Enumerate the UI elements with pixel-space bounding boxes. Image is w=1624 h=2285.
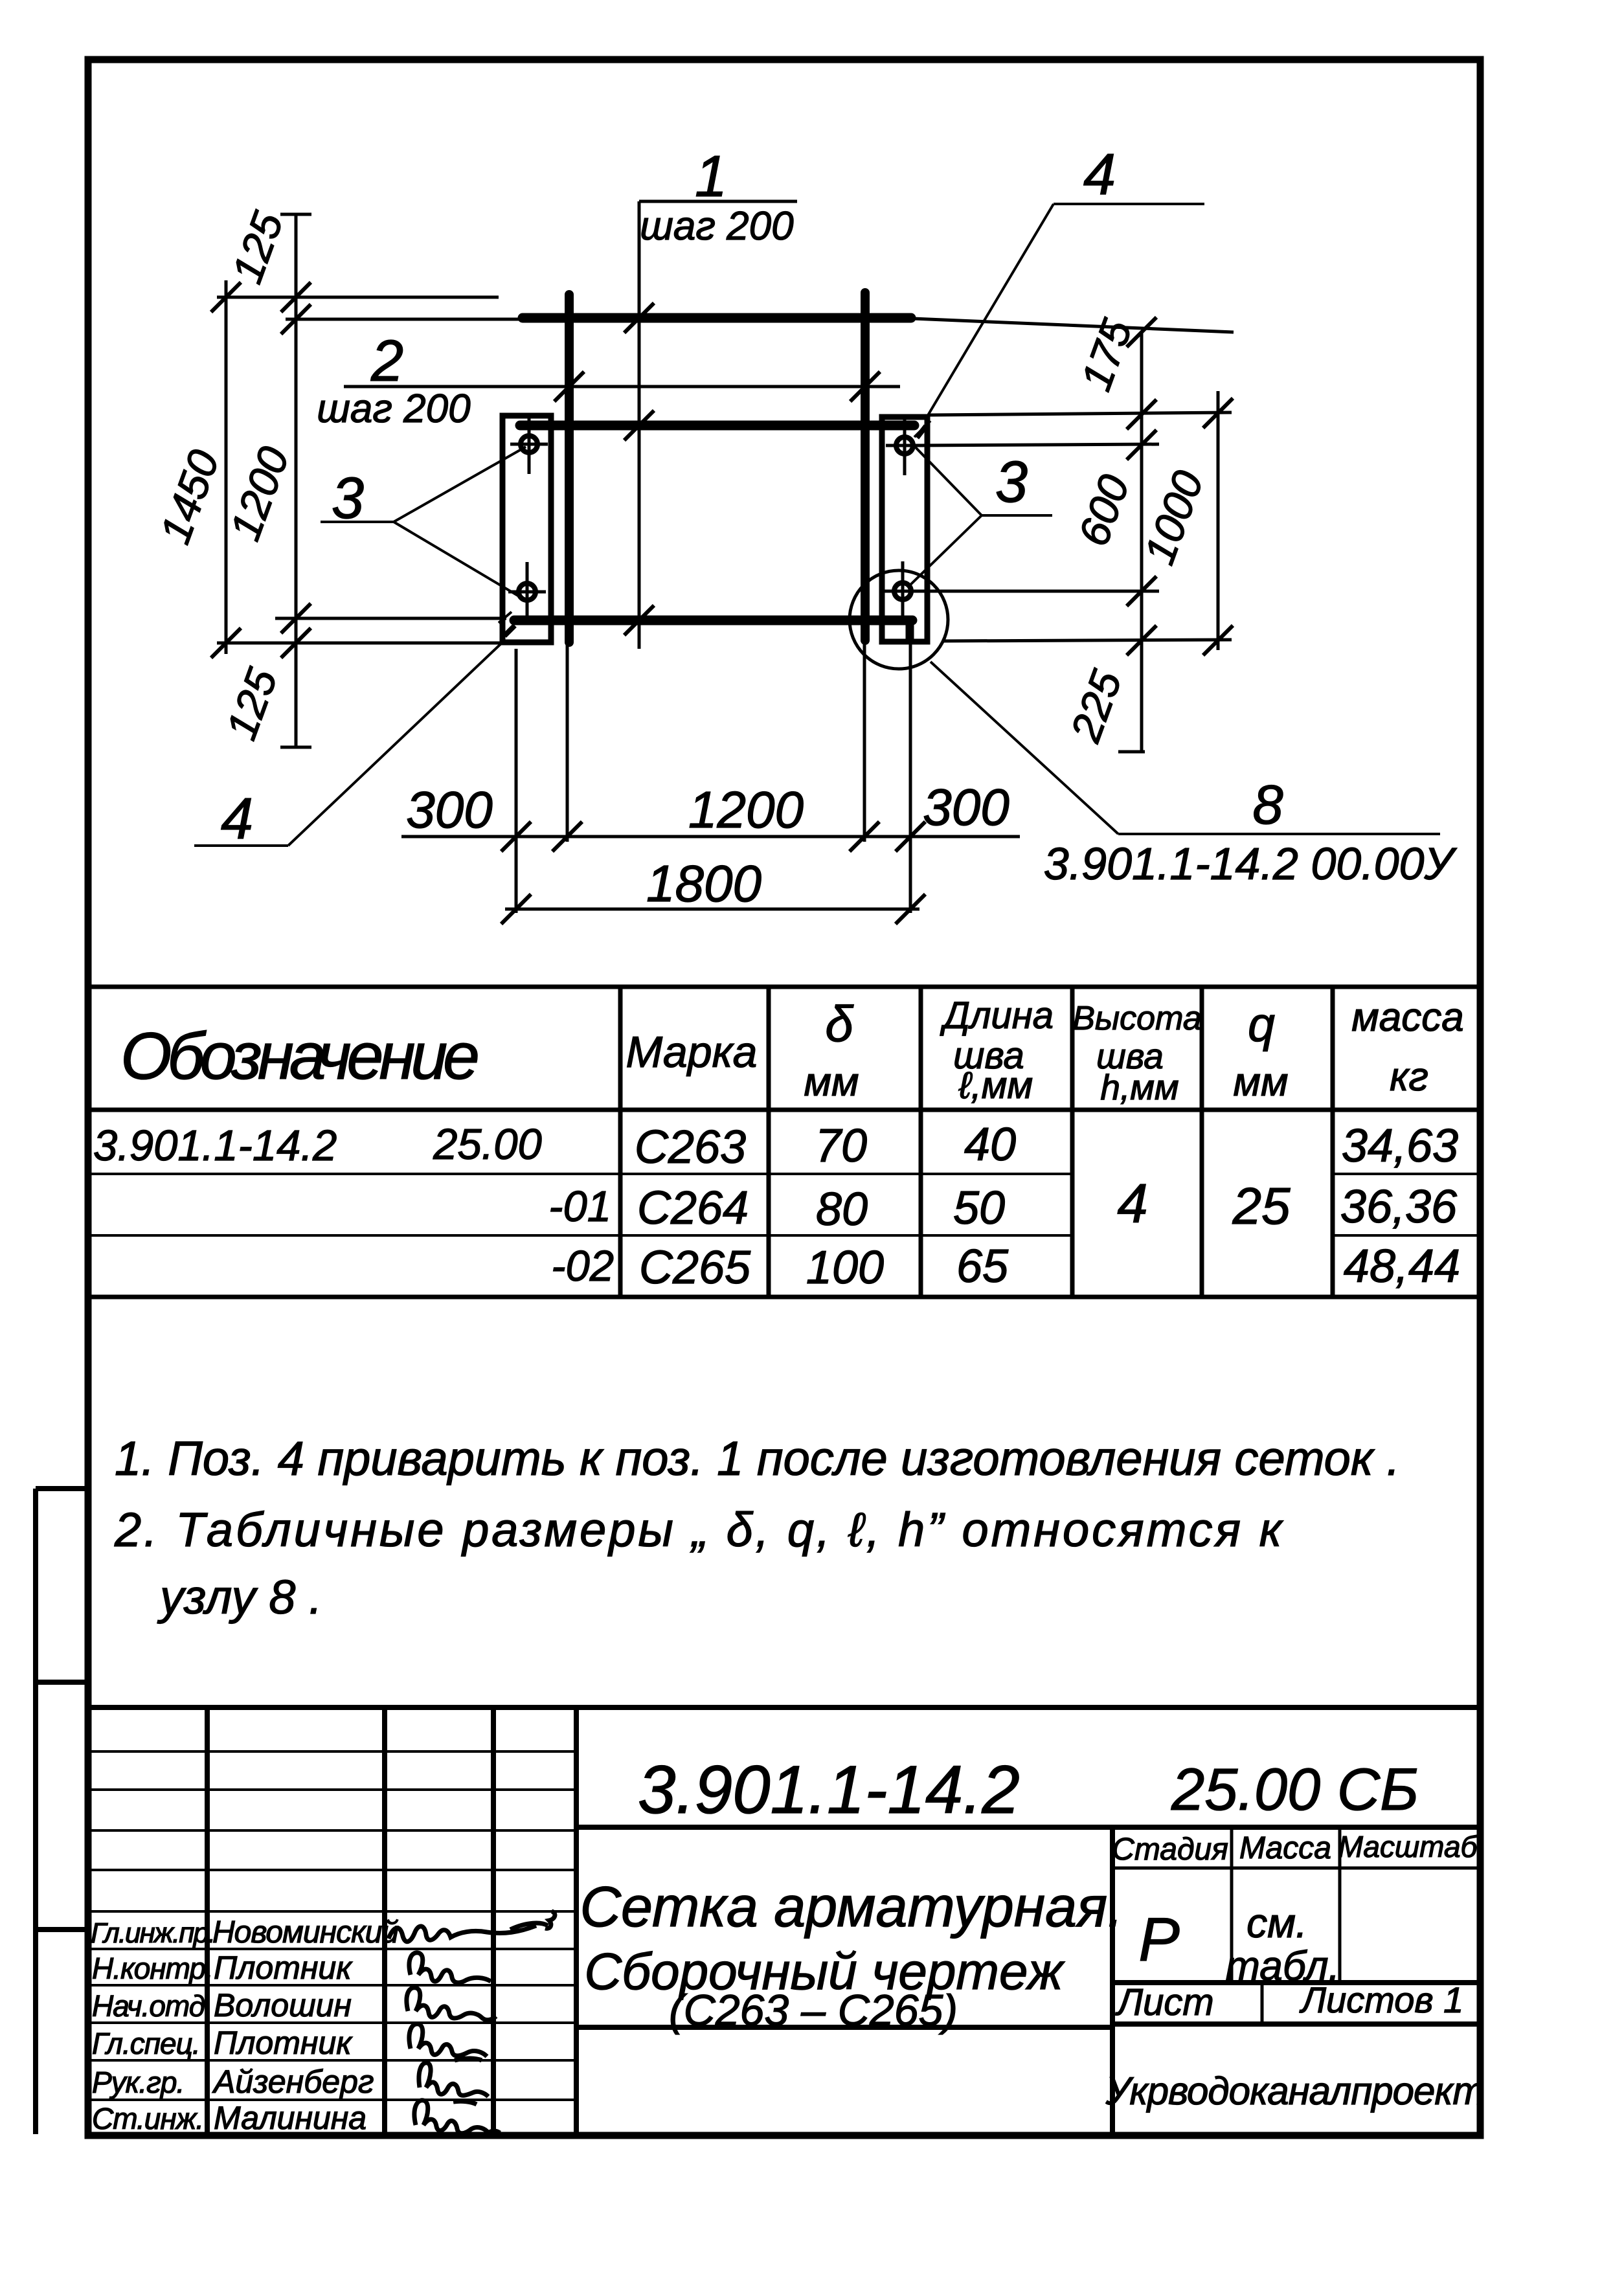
label 1 leader vertical line [638,201,641,649]
svg-text:300: 300 [406,781,492,839]
svg-text:3: 3 [332,466,364,531]
plate 3 left [502,416,551,642]
svg-text:48,44: 48,44 [1344,1241,1460,1292]
label 4 bottom leader [194,612,512,846]
svg-text:Малинина: Малинина [214,2100,367,2136]
svg-text:50: 50 [953,1182,1005,1234]
extension circle top right [913,444,1159,445]
svg-text:h,мм: h,мм [1100,1067,1179,1107]
svg-text:Лист: Лист [1114,1981,1213,2023]
svg-text:1200: 1200 [221,440,299,546]
rebar 1 middle horizontal [520,421,914,431]
svg-text:Плотник: Плотник [214,1950,353,1986]
extension circle bottom right [913,590,1159,593]
svg-text:(С263 – С265): (С263 – С265) [669,1986,958,2035]
label 3 right leader [910,447,1052,585]
svg-text:4: 4 [221,787,253,851]
ticks on leader 2 [554,372,880,401]
svg-text:125: 125 [223,205,292,289]
svg-text:36,36: 36,36 [1340,1181,1458,1233]
svg-text:100: 100 [806,1242,884,1294]
svg-text:Ст.инж.: Ст.инж. [92,2102,203,2135]
svg-text:мм: мм [804,1060,859,1105]
weld tick left plate bottom [504,625,515,636]
svg-text:шаг 200: шаг 200 [640,204,793,249]
svg-text:3: 3 [995,450,1028,515]
rebar 1 top horizontal [523,313,911,323]
anchor rod 4 hook at node 8 [906,620,914,640]
svg-text:300: 300 [923,778,1009,836]
svg-text:1450: 1450 [151,444,229,550]
extension line top 1450 [217,296,499,299]
extension line bottom bar level [275,617,506,620]
title block lines [88,1707,1479,2134]
signature Novominskiy [389,1911,555,1942]
bottom extension lines [515,649,518,913]
svg-text:2: 2 [370,329,403,394]
svg-text:Р: Р [1138,1906,1179,1974]
rebar 2 left vertical [565,295,574,642]
left dim ticks [211,282,311,658]
ticks on leader 1 [624,303,654,635]
label 2 fraction bar [344,385,900,388]
svg-text:-01: -01 [548,1182,611,1231]
svg-text:600: 600 [1069,468,1138,552]
svg-text:1800: 1800 [646,855,761,912]
svg-text:1000: 1000 [1135,464,1213,570]
weld point left bottom [508,562,546,622]
svg-text:Масса: Масса [1239,1831,1331,1865]
weld point right top [886,416,923,475]
svg-text:1. Поз. 4 приварить к поз. 1 п: 1. Поз. 4 приварить к поз. 1 после изгот… [115,1432,1400,1485]
svg-text:25: 25 [1232,1177,1291,1235]
svg-text:Гл.спец.: Гл.спец. [92,2027,200,2060]
svg-text:Волошин: Волошин [214,1987,352,2023]
svg-text:С265: С265 [639,1242,751,1294]
svg-text:С264: С264 [637,1182,749,1234]
svg-text:Высота: Высота [1072,1000,1202,1037]
svg-text:Длина: Длина [940,995,1054,1037]
dim line 1800 [505,908,919,911]
extension top bar right [913,319,1234,332]
svg-text:1: 1 [695,144,727,209]
svg-text:Плотник: Плотник [214,2025,353,2061]
svg-text:Обозначение: Обозначение [120,1019,477,1093]
dim line D right 1000 [1217,391,1220,650]
svg-text:Гл.инж.пр.: Гл.инж.пр. [91,1917,214,1949]
svg-text:Стадия: Стадия [1112,1832,1228,1867]
dim line B 125/1200/125 [295,213,298,748]
signature Plotnik row2 [409,1953,491,1983]
svg-text:Марка: Марка [626,1028,758,1077]
title block thin rows [88,1751,576,2100]
svg-text:80: 80 [816,1184,868,1235]
label 1 fraction bar [639,200,797,203]
label 3 left leader [321,447,526,596]
signature Plotnik row4 [409,2024,487,2060]
node 8 detail circle [850,570,948,669]
svg-text:Листов 1: Листов 1 [1300,1979,1464,2020]
signature Malinina row6 [414,2100,500,2133]
svg-text:масса: масса [1351,995,1463,1040]
svg-text:1200: 1200 [688,781,804,839]
extension line top bar level [286,318,523,321]
right dim ticks [1127,317,1233,655]
svg-text:-02: -02 [551,1242,614,1290]
signature Voloshin row3 [407,1988,496,2020]
weld point left top [510,414,548,474]
dim line 300/1200/300 [401,835,1020,839]
svg-text:225: 225 [1061,664,1131,748]
svg-text:Айзенберг: Айзенберг [212,2064,374,2100]
svg-text:см.: см. [1246,1900,1307,1946]
svg-text:3.901.1-14.2: 3.901.1-14.2 [93,1121,337,1170]
svg-text:3.901.1-14.2 00.00У: 3.901.1-14.2 00.00У [1044,839,1458,889]
signatures squiggles [389,1911,555,2133]
svg-text:4: 4 [1083,142,1116,207]
rebar 1 bottom horizontal [514,616,912,625]
svg-text:Рук.гр.: Рук.гр. [92,2066,184,2099]
node 8 callout leader [930,662,1440,834]
svg-text:δ: δ [825,995,854,1052]
svg-text:шаг 200: шаг 200 [317,387,470,431]
svg-text:4: 4 [1117,1173,1147,1235]
svg-text:25.00 СБ: 25.00 СБ [1171,1757,1419,1823]
dim line C right 175/600/225 [1140,333,1144,752]
svg-text:40: 40 [964,1119,1016,1171]
svg-text:кг: кг [1390,1055,1428,1099]
svg-text:Сетка арматурная.: Сетка арматурная. [580,1874,1123,1939]
svg-text:70: 70 [815,1120,867,1172]
plate 3 right [882,417,927,642]
svg-text:3.901.1-14.2: 3.901.1-14.2 [638,1752,1020,1828]
svg-text:65: 65 [956,1241,1009,1292]
rebar 2 right vertical [861,293,870,640]
svg-text:Новоминский: Новоминский [212,1915,398,1950]
svg-text:узлу 8 .: узлу 8 . [157,1570,322,1624]
label 4 top leader [914,204,1204,437]
bottom dim ticks [501,822,925,924]
svg-text:2. Табличные размеры „ δ, q,: 2. Табличные размеры „ δ, q, ℓ, h” относ… [114,1503,1285,1557]
svg-text:мм: мм [1233,1060,1288,1105]
svg-text:25.00: 25.00 [433,1120,542,1169]
svg-text:125: 125 [217,662,286,745]
extension plate bottom right [942,640,1232,641]
svg-text:34,63: 34,63 [1342,1120,1458,1172]
left margin strip [36,1489,88,2134]
weld point right bottom [884,561,921,621]
svg-text:q: q [1248,997,1275,1052]
extension line bottom 1450 [217,642,505,645]
svg-text:Н.контр.: Н.контр. [92,1952,213,1985]
parts table lines [88,987,1479,1297]
weld tick right plate top [917,426,926,438]
border frame [88,60,1480,2135]
signature Eisenberg row5 [419,2063,488,2104]
svg-text:Масштаб: Масштаб [1338,1830,1479,1863]
svg-text:Нач.отд.: Нач.отд. [92,1989,212,2023]
svg-text:Укрводоканалпроект: Укрводоканалпроект [1105,2069,1485,2113]
extension plate top right [929,412,1232,415]
dim line A 1450 [225,280,228,654]
svg-text:8: 8 [1252,774,1283,836]
svg-text:ℓ,мм: ℓ,мм [958,1064,1033,1107]
svg-text:С263: С263 [635,1121,746,1173]
